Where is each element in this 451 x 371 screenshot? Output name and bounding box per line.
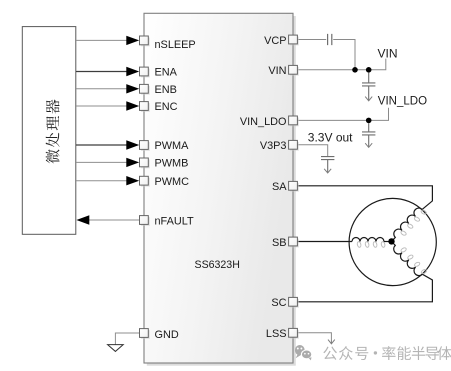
arrow into nSLEEP (126, 36, 139, 45)
capacitor C2 (VIN bulk) (362, 73, 375, 101)
junction dot VIN_LDO cap (366, 118, 372, 124)
pin square PWMC (140, 176, 150, 186)
motor winding phase C (lower-right) (388, 237, 428, 279)
IC body SS6323H (144, 13, 293, 363)
ground arrow below C4 (324, 169, 331, 173)
svg-text:ENA: ENA (155, 67, 178, 79)
wire SC phase (297, 274, 432, 302)
wire ENA input (76, 71, 127, 73)
svg-text:ENB: ENB (155, 84, 177, 96)
wire LSS to ground (297, 333, 331, 340)
pin square V3P3 (289, 140, 299, 150)
pin square VIN (289, 65, 299, 75)
pin square ENB (140, 84, 150, 94)
svg-text:VIN: VIN (268, 65, 286, 77)
wire SA phase (297, 186, 432, 210)
svg-text:VIN_LDO: VIN_LDO (240, 116, 287, 128)
svg-text:PWMB: PWMB (155, 158, 189, 170)
watermark text 公众号·率能半导体 (323, 346, 451, 360)
svg-text:V3P3: V3P3 (260, 140, 287, 152)
arrow into ENC (126, 101, 139, 110)
pin square PWMB (140, 158, 150, 168)
arrow into ENA (126, 67, 139, 76)
pin square PWMA (140, 141, 150, 151)
pin square nFAULT (140, 216, 150, 226)
pin square SC (289, 297, 299, 307)
svg-text:PWMC: PWMC (155, 176, 190, 188)
svg-text:nFAULT: nFAULT (155, 216, 194, 228)
pin square nSLEEP (140, 36, 150, 46)
wire V3P3 net (297, 145, 327, 156)
wire ENB input (76, 88, 127, 90)
pin square LSS (289, 328, 299, 338)
wire VCP to capacitor C1 (297, 40, 355, 70)
svg-text:VIN: VIN (378, 47, 398, 61)
label 微处理器 (46, 99, 60, 163)
pin square SB (289, 237, 299, 247)
pin square GND (140, 329, 150, 339)
watermark wechat icon (295, 345, 312, 360)
arrow nFAULT into microprocessor (76, 215, 89, 224)
wire nFAULT output (89, 219, 140, 221)
motor winding phase B (left, horizontal) (352, 238, 385, 248)
svg-text:ENC: ENC (155, 101, 178, 113)
svg-text:SS6323H: SS6323H (195, 259, 240, 271)
wire VIN_LDO net (297, 108, 388, 121)
junction dot VCP/VIN (352, 67, 358, 73)
wire PWMC input (76, 180, 127, 182)
pin square ENA (140, 67, 150, 77)
capacitor C4 (V3P3) (321, 157, 334, 173)
ground arrow below C2 (365, 97, 372, 101)
capacitor C1 (VCP flying cap) (328, 34, 332, 45)
pin square ENC (140, 102, 150, 112)
wire PWMA input (76, 144, 127, 146)
ground symbol (108, 345, 124, 352)
pin square VIN_LDO (289, 116, 299, 126)
pin square SA (289, 181, 299, 191)
wire ENC input (76, 105, 127, 107)
svg-text:PWMA: PWMA (155, 140, 190, 152)
wire GND (115, 333, 139, 345)
wire SB phase (297, 241, 352, 243)
svg-text:LSS: LSS (266, 328, 287, 340)
motor M1 circle (349, 198, 436, 285)
pin square VCP (289, 35, 299, 45)
ground arrow below C3 (365, 143, 372, 147)
junction dot VIN cap (366, 67, 372, 73)
svg-text:VIN_LDO: VIN_LDO (378, 96, 427, 108)
arrow into PWMB (126, 158, 139, 167)
svg-text:SB: SB (272, 237, 287, 249)
motor winding phase A (upper-right) (388, 205, 428, 246)
ground arrow LSS (328, 340, 335, 344)
svg-text:VCP: VCP (264, 35, 286, 47)
arrow into PWMC (126, 176, 139, 185)
IC body shadow (147, 16, 296, 366)
wire nSLEEP input (76, 39, 127, 41)
wire VIN net (297, 59, 385, 70)
svg-text:SC: SC (271, 297, 286, 309)
svg-text:3.3V out: 3.3V out (308, 131, 353, 145)
wire PWMB input (76, 161, 127, 163)
svg-text:GND: GND (155, 329, 179, 341)
arrow into ENB (126, 84, 139, 93)
capacitor C3 (VIN_LDO) (362, 123, 375, 147)
svg-text:SA: SA (272, 181, 287, 193)
svg-text:nSLEEP: nSLEEP (155, 39, 196, 51)
arrow into PWMA (126, 140, 139, 149)
motor star point dot (388, 238, 394, 244)
microprocessor box U2 (22, 27, 76, 235)
